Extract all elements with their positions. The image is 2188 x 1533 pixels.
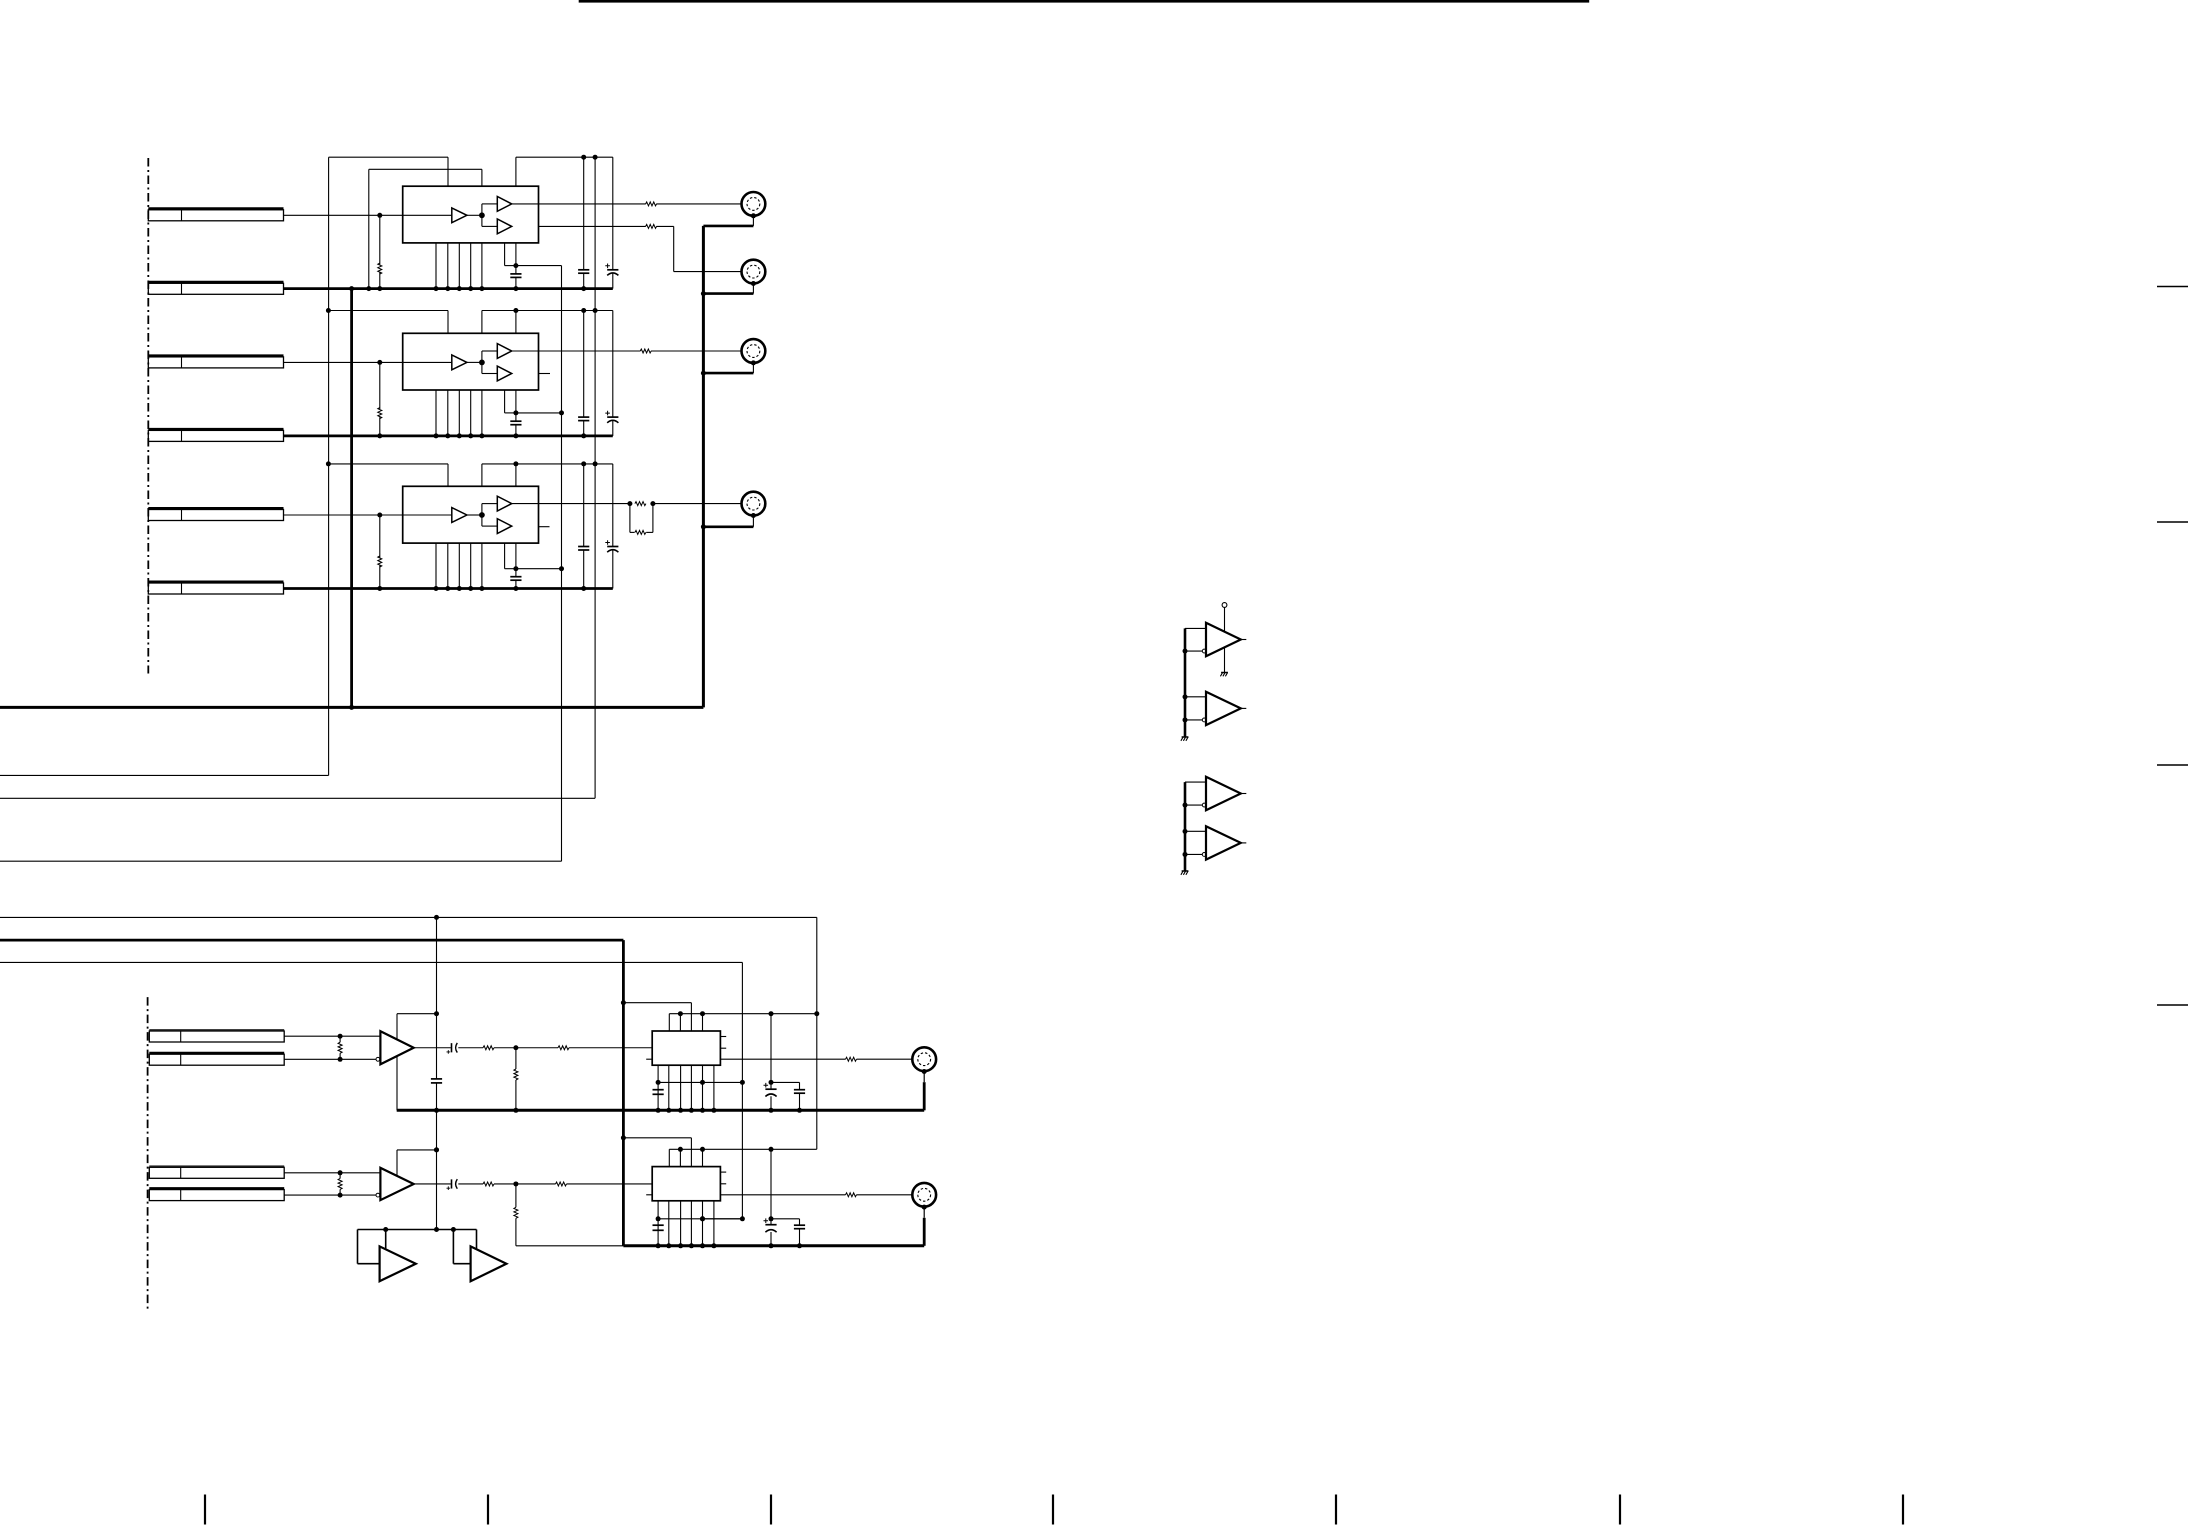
wire to jack J4: [653, 503, 748, 505]
driver amp: [1206, 623, 1241, 656]
capacitor C44: [794, 1089, 805, 1091]
ground symbol mute: [1221, 672, 1228, 674]
wire jog node to cap: [515, 569, 517, 577]
wire C26 to bus: [583, 421, 585, 436]
junction pin x459.3: [457, 286, 462, 291]
column tick 2: [487, 1495, 489, 1525]
wire output to IC5: [567, 1183, 653, 1185]
wire jack gnd drop: [923, 1072, 925, 1083]
capacitor C42: [653, 1089, 664, 1091]
wire jog link ch2: [516, 412, 562, 414]
wire U2 pin to ground bus: [435, 390, 437, 436]
op-amp U3c output buffer: [497, 519, 511, 534]
wire cap to bus: [515, 277, 517, 288]
ground bus lower 2 (thick): [623, 1244, 924, 1247]
wire IC4 output: [720, 1058, 845, 1060]
capacitor C16 decoupling: [578, 269, 589, 271]
ground bus lower 2: [516, 1245, 624, 1247]
wire driver - input: [1185, 853, 1202, 855]
wire loop top (ch2): [328, 310, 448, 312]
wire C27 to bus end: [612, 421, 614, 436]
resistor R45 series: [483, 1046, 494, 1050]
wire rail to U3 top pin B: [515, 464, 517, 486]
wire IC4 bottom pin: [713, 1065, 715, 1110]
resistor R32b ch3 parallel: [635, 530, 646, 534]
wire supply rail top (ch2): [482, 310, 613, 312]
op-amp A4 power amplifier: [380, 1031, 413, 1064]
wire page-left line D: [0, 916, 817, 918]
wire U2 pin jog: [504, 390, 506, 413]
op-amp U1b output buffer: [497, 197, 511, 212]
wire top pin 4: [702, 1014, 704, 1031]
wire IC4 bottom pin: [690, 1065, 692, 1110]
junction pin x436: [434, 586, 439, 591]
wire U1b out to R: [539, 203, 646, 205]
wire IC4 bottom pin: [657, 1065, 659, 1110]
wire node down to U2c: [481, 362, 483, 373]
resistor R58 output: [846, 1193, 857, 1197]
junction pin x470.7: [468, 286, 473, 291]
wire R to jog: [656, 225, 673, 227]
jack J4 ground lug: [922, 1069, 927, 1074]
wire rail to U1 top pin: [515, 157, 517, 186]
wire driver top loop: [1185, 781, 1206, 783]
wire page-left line E: [0, 961, 742, 963]
column tick 4: [1052, 1495, 1054, 1525]
junction pin/capline: [656, 1216, 661, 1221]
wire buffer Q2 loop: [451, 1227, 456, 1232]
wire x436 lower run: [436, 1110, 438, 1229]
wire U3 pin to ground bus: [458, 543, 460, 588]
wire jack gnd drop: [923, 1207, 925, 1218]
op-amp U2a input buffer: [452, 355, 467, 370]
wire jog link ch3: [516, 568, 562, 570]
title underline bar: [579, 0, 1589, 3]
wire input from connector to U1: [284, 214, 403, 216]
resistor R12 ch1 L: [646, 202, 657, 206]
wire U3b out: [539, 503, 630, 505]
junction hot tap: [338, 1034, 343, 1039]
wire C53 riser: [770, 1149, 772, 1219]
connector CN upper pin 2 (shield ch1): [148, 281, 283, 284]
column tick 3: [770, 1495, 772, 1525]
wire IC5 bottom pin: [668, 1201, 670, 1246]
junction pin x481.9: [479, 586, 484, 591]
junction pin x470.7: [468, 433, 473, 438]
wire C53 leads: [770, 1219, 772, 1225]
wire node up to U2b: [481, 351, 483, 362]
wire input from connector to U2: [284, 361, 403, 363]
wire A4 lower pin: [396, 1056, 398, 1110]
wire input tap: [377, 213, 382, 218]
wire J1 gnd to bus: [703, 225, 753, 228]
wire IC5 bottom pin: [657, 1201, 659, 1246]
wire U1 pin to ground bus: [447, 243, 449, 289]
ground bus ch3: [284, 587, 613, 590]
capacitor C54: [794, 1224, 805, 1226]
wire driver - input: [1185, 719, 1202, 721]
wire driver + input: [1185, 696, 1206, 698]
resistor R32a ch3: [635, 502, 646, 506]
wire jog node to cap: [515, 266, 517, 274]
wire rail to C27: [612, 311, 614, 418]
wire supply branch: [623, 1137, 691, 1139]
wire to jack: [857, 1058, 920, 1060]
wire long vertical x328: [328, 157, 330, 775]
wire rail to U2 top pin A: [481, 311, 483, 334]
op-amp U1c output buffer: [497, 219, 511, 234]
wire IC5 pin line: [669, 1148, 817, 1150]
resistor R46 load tap: [515, 1048, 517, 1069]
connector CN upper pin 3 (signal ch2): [148, 354, 283, 357]
wire pin line corner: [668, 1149, 670, 1166]
wire input hot ch5: [284, 1172, 380, 1174]
wire output: [458, 1047, 483, 1049]
mute control node: [1222, 603, 1227, 608]
fold mark right 3: [2157, 764, 2188, 766]
wire U3 pin to ground bus: [481, 543, 483, 588]
IC4 left stub: [646, 1058, 652, 1060]
ground return to page left (thick): [0, 706, 703, 709]
IC U2 buffer box: [403, 333, 539, 390]
wire page-left line A: [0, 774, 329, 776]
junction jog node: [513, 263, 518, 268]
ground riser (thick) x351: [350, 289, 353, 708]
resistor R57 series: [556, 1182, 567, 1186]
fold mark right 2: [2157, 521, 2188, 523]
junction pin x481.9: [479, 433, 484, 438]
wire rail to C36: [583, 464, 585, 547]
op-amp U1a input buffer: [452, 208, 467, 223]
ground symbol bus: [1182, 870, 1189, 872]
wire buffer Q1 tap: [383, 1227, 388, 1232]
wire vertical x816: [816, 917, 818, 1149]
buffer Q2: [471, 1246, 507, 1281]
wire output 2: [494, 1047, 516, 1049]
driver amp: [1206, 777, 1241, 810]
connector CN upper pin 1 (signal ch1): [148, 207, 283, 210]
wire U1 input inside box: [403, 214, 452, 216]
junction pin x447.8: [445, 433, 450, 438]
wire J1 gnd drop: [752, 216, 754, 226]
mute line vertical: [1224, 607, 1226, 672]
wire supply rail top (ch3): [482, 463, 613, 465]
junction pin line end ch4: [814, 1011, 819, 1016]
junction rail/C36: [581, 461, 586, 466]
junction cold tap: [338, 1193, 343, 1198]
resistor R21 input bias: [378, 408, 382, 419]
resistor R11 input bias: [378, 263, 382, 274]
wire A5 feedback top: [397, 1149, 437, 1151]
resistor R13 ch1 R: [646, 224, 657, 228]
wire A5 output: [414, 1183, 451, 1185]
capacitor C35 bypass: [510, 576, 521, 578]
IC U3 buffer box: [403, 486, 539, 543]
wire supply branch: [623, 1002, 691, 1004]
RCA jack J4: [742, 492, 766, 516]
driver bus (thick): [1184, 628, 1187, 737]
inverting bubble: [1202, 649, 1206, 653]
node U3 split: [479, 512, 485, 518]
wire driver top loop: [1185, 627, 1206, 629]
buffer Q1: [380, 1246, 416, 1281]
connector CN lower pin 3 (hot ch5): [149, 1165, 284, 1167]
IC5 left stub: [646, 1194, 652, 1196]
wire page-left line C: [0, 860, 562, 862]
junction rail/C16: [581, 155, 586, 160]
wire loop top (ch3): [328, 463, 448, 465]
wire U1 pin to ground bus: [435, 243, 437, 289]
wire loop B down to U1 top pin: [481, 169, 483, 186]
column tick 6: [1619, 1495, 1621, 1525]
op-amp U3a input buffer: [452, 508, 467, 523]
wire cap pair link: [771, 1081, 800, 1083]
wire jog link ch1: [516, 265, 562, 267]
junction rail x595: [593, 308, 598, 313]
junction riser/ground return: [349, 705, 354, 710]
wire feedback drop: [396, 1150, 398, 1176]
wire node up to U1b: [481, 204, 483, 215]
wire rail to C26: [583, 311, 585, 418]
capacitor C43 electrolytic: [765, 1088, 776, 1090]
wire IC4 pin line: [669, 1013, 817, 1015]
wire U2 pin to ground bus: [481, 390, 483, 436]
connector CN upper pin 6 (shield ch3): [148, 580, 283, 583]
wire vertical x742: [741, 962, 743, 1218]
board outline (dash-dot), lower section: [147, 997, 149, 1312]
ground symbol bus: [1182, 736, 1189, 738]
junction rail x595: [593, 155, 598, 160]
ground bus ch2: [284, 434, 613, 437]
IC5 nc stub b: [720, 1183, 726, 1185]
wire to jack: [857, 1194, 920, 1196]
wire U2a out to node: [467, 361, 482, 363]
wire loop down to U2 top pin: [447, 311, 449, 334]
wire driver output stub: [1241, 842, 1247, 844]
wire IC5 bottom pin: [713, 1201, 715, 1246]
node U2 split: [479, 360, 485, 366]
wire J4 gnd drop: [752, 516, 754, 527]
wire U3b output: [512, 503, 539, 505]
wire buffer Q1 loop: [357, 1230, 359, 1264]
connector CN lower pin 4 (cold ch5): [149, 1187, 284, 1190]
wire J4 gnd to bus: [703, 525, 753, 528]
wire driver output stub: [1241, 793, 1247, 795]
ground bus jacks (thick): [702, 226, 705, 708]
column tick 1: [204, 1495, 206, 1525]
wire R network loop: [629, 504, 631, 533]
wire U1 pin to ground bus: [481, 243, 483, 289]
wire rail to U2 top pin B: [515, 311, 517, 334]
wire rail to C37: [612, 464, 614, 547]
IC4 nc stub b: [720, 1047, 726, 1049]
resistor R31 input bias: [378, 556, 382, 567]
jack J1 ground lug: [751, 213, 756, 218]
wire top pin 4: [702, 1149, 704, 1166]
wire jog to jack J2: [674, 271, 749, 273]
wire page-left line B: [0, 797, 595, 799]
wire A4 feedback top: [397, 1013, 437, 1015]
wire cap to bus: [515, 425, 517, 436]
driver bus (thick): [1184, 782, 1187, 871]
wire jog node to cap: [515, 413, 517, 421]
resistor R44 differential: [339, 1036, 341, 1042]
supply riser lower (thick): [622, 940, 625, 1246]
wire loop down to U3 top pin: [447, 464, 449, 486]
IC5 nc stub a: [720, 1171, 726, 1173]
capacitor C51 output coupling: [451, 1179, 453, 1188]
resistor R55 series: [483, 1182, 494, 1186]
node U1 split: [479, 212, 485, 218]
wire resistor to bus: [379, 272, 381, 288]
wire buffer Q2 tap: [476, 1230, 478, 1250]
wire buffer feed line: [358, 1229, 477, 1231]
wire rail to C17: [612, 157, 614, 270]
wire input cold ch4: [284, 1058, 376, 1060]
junction bus ch1 / riser: [349, 286, 354, 291]
IC4 nc stub a: [720, 1036, 726, 1038]
wire C36 to bus: [583, 550, 585, 589]
junction pin x436: [434, 286, 439, 291]
wire rail vertical x595: [594, 157, 596, 798]
wire C16 to bus: [583, 273, 585, 288]
wire C54 leads: [799, 1219, 801, 1225]
wire pin line corner: [668, 1014, 670, 1031]
wire x742 corner to pin: [703, 1218, 743, 1220]
capacitor C53 electrolytic: [765, 1224, 776, 1226]
junction rail x595: [593, 461, 598, 466]
driver amp: [1206, 692, 1241, 725]
RCA jack J2: [742, 260, 766, 284]
capacitor C46 on x436: [431, 1078, 442, 1080]
wire output: [458, 1183, 483, 1185]
wire feedback loop B top (ch1): [369, 168, 482, 170]
wire U2b output: [512, 350, 539, 352]
wire IC5 bottom pin: [702, 1201, 704, 1246]
wire supply rail top (ch1): [516, 156, 613, 158]
capacitor C36 decoupling: [578, 546, 589, 548]
resistor R22 ch2: [640, 349, 651, 353]
wire U3 pin jog: [504, 543, 506, 569]
wire J3 gnd to bus: [703, 372, 753, 375]
capacitor C26 decoupling: [578, 416, 589, 418]
wire A4 output: [414, 1047, 451, 1049]
capacitor C15 bypass: [510, 273, 521, 275]
wire driver - input: [1185, 804, 1202, 806]
RCA jack J3: [742, 339, 766, 363]
wire node link vertical x561: [561, 266, 563, 862]
capacitor C27 electrolytic: [607, 416, 618, 418]
wire node down to U3c: [481, 515, 483, 526]
op-amp U3b output buffer: [497, 496, 511, 511]
resistor R47 series: [558, 1046, 569, 1050]
junction pin x481.9: [479, 286, 484, 291]
RCA jack J5: [912, 1183, 936, 1207]
wire input cold ch5: [284, 1194, 376, 1196]
wire resistor to bus: [379, 417, 381, 436]
wire U1 pin to ground bus: [470, 243, 472, 289]
wire feedback loop A top (ch1): [329, 156, 448, 158]
jack J3 ground lug: [751, 360, 756, 365]
junction hot tap: [338, 1170, 343, 1175]
IC U1 buffer box: [403, 186, 539, 243]
junction pin/capline: [656, 1080, 661, 1085]
wire U3c stub: [539, 526, 550, 528]
wire C43 leads: [770, 1082, 772, 1089]
wire IC5 output: [720, 1194, 845, 1196]
wire R to jack J3: [651, 350, 748, 352]
junction pin x447.8: [445, 286, 450, 291]
wire resistor to bus: [379, 566, 381, 589]
jack J4 ground lug: [751, 513, 756, 518]
inverting bubble: [1202, 853, 1206, 857]
wire C44 leads: [799, 1082, 801, 1089]
wire U3 pin to ground bus: [470, 543, 472, 588]
wire U1 pin to ground bus: [458, 243, 460, 289]
capacitor C52: [653, 1224, 664, 1226]
jack J5 ground lug: [922, 1205, 927, 1210]
wire driver output stub: [1241, 707, 1247, 709]
wire U1 pin jog: [504, 243, 506, 266]
wire x436 to bus: [436, 1083, 438, 1110]
junction line D / x436: [434, 915, 439, 920]
wire input tap: [377, 360, 382, 365]
IC U40 driver box: [652, 1031, 720, 1065]
column tick 5: [1335, 1495, 1337, 1525]
wire U1c out to R: [539, 225, 646, 227]
wire output 3: [516, 1047, 558, 1049]
wire U2 input inside box: [403, 361, 452, 363]
inverting input bubble: [376, 1193, 380, 1197]
resistor R56 load tap: [515, 1184, 517, 1207]
connector CN upper pin 4 (shield ch2): [148, 428, 283, 431]
wire rail to U3 top pin A: [481, 464, 483, 486]
wire U1a out to node: [467, 214, 482, 216]
wire input from connector to U3: [284, 514, 403, 516]
wire x436 mid run: [436, 1014, 438, 1079]
wire loop A down to U1 top pin: [447, 157, 449, 186]
wire x436 upper run: [436, 917, 438, 1013]
junction jog node: [513, 566, 518, 571]
wire IC4 bottom pin: [668, 1065, 670, 1110]
wire top pin 2: [679, 1149, 681, 1166]
wire output 2: [494, 1183, 516, 1185]
wire cap line: [658, 1218, 742, 1220]
wire input tap: [377, 513, 382, 518]
junction jog node: [513, 410, 518, 415]
wire R to jack J1: [656, 203, 748, 205]
resistor R54 differential: [339, 1173, 341, 1179]
wire U3 pin to ground bus: [435, 543, 437, 588]
wire J2 gnd drop: [752, 284, 754, 294]
inverting bubble: [1202, 718, 1206, 722]
junction pin x447.8: [445, 586, 450, 591]
ground bus lower 1 (thick): [397, 1109, 925, 1112]
wire U3 pin to ground bus: [447, 543, 449, 588]
capacitor C25 bypass: [510, 420, 521, 422]
board outline (dash-dot), upper section: [147, 158, 149, 674]
wire rail to C16: [583, 157, 585, 270]
wire IC5 bottom pin: [680, 1201, 682, 1246]
wire driver output stub: [1241, 639, 1247, 641]
wire input hot ch4: [284, 1035, 380, 1037]
wire C43 riser: [770, 1014, 772, 1083]
resistor R48 output: [846, 1057, 857, 1061]
driver amp: [1206, 826, 1241, 859]
wire U3a out to node: [467, 514, 482, 516]
wire U2 pin to ground bus: [447, 390, 449, 436]
wire cap to bus: [515, 580, 517, 588]
